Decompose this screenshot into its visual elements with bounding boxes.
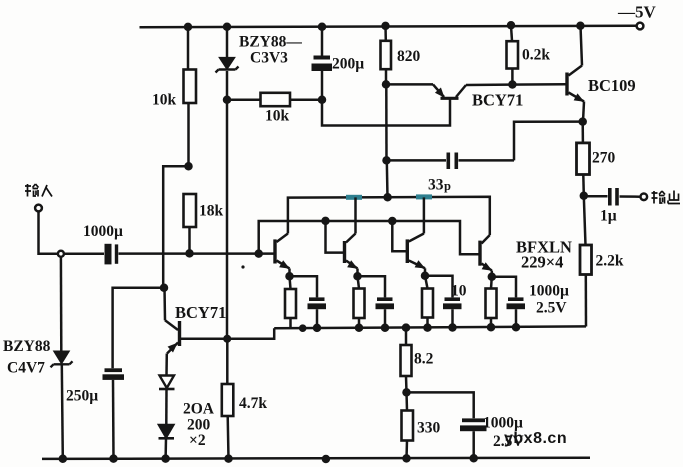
node zener rail junction: [224, 24, 230, 30]
node T1 emitter junction: [287, 273, 293, 279]
resistor 8.2: [401, 328, 412, 393]
node T1 C bus junction: [314, 325, 320, 331]
node zener/10kh junction: [224, 97, 230, 103]
label BCY71 (upper): [472, 91, 523, 110]
svg-text:×2: ×2: [189, 432, 206, 449]
wire zener C3V3 top stem: [226, 27, 229, 58]
node 1000µ ground junction: [471, 455, 477, 461]
node 302 junction on emitter bus: [300, 326, 305, 331]
resistor 4.7k: [222, 384, 234, 416]
node 200µ/10kh junction: [319, 97, 325, 103]
wire C1 to 18k node: [119, 252, 190, 255]
label 2.2k: [596, 253, 624, 270]
svg-text:BZY88: BZY88: [3, 338, 51, 355]
resistor 2.2k: [580, 245, 592, 275]
node ground junction C4V7: [60, 456, 66, 462]
label BCY71 (lower): [175, 303, 226, 322]
svg-text:4.7k: 4.7k: [239, 395, 267, 412]
wire junction to bottom 1000µ: [407, 392, 474, 418]
node BC109 collector rail junction: [577, 23, 583, 29]
node BC109 emitter junction: [580, 119, 586, 125]
svg-text:BZY88—: BZY88—: [239, 34, 302, 51]
wire 33p node down to base bus: [386, 160, 389, 197]
label 1µ: [600, 208, 617, 225]
node 18k/1000µ junction: [187, 250, 193, 256]
diode zener BZY88-C3V3: [216, 58, 239, 73]
node T3 R bus junction: [425, 325, 431, 331]
transistor T2 (BFXLN 2/4): [326, 197, 360, 276]
capacitor 1000µ 2.5V (bottom): [460, 418, 487, 458]
wire 4.7k bottom stem: [226, 416, 229, 459]
node open junction at input/zener: [58, 251, 64, 257]
resistor 10 (T3 emitter): [422, 276, 433, 328]
resistor 18k: [184, 194, 197, 227]
wire 33p to BC109 emitter: [514, 122, 583, 161]
svg-text:2.5V: 2.5V: [536, 300, 567, 317]
wire collector node to 250µ: [113, 288, 164, 369]
label 10k (horizontal resistor): [265, 108, 290, 125]
node 33p left junction: [384, 157, 390, 163]
svg-text:C4V7: C4V7: [7, 360, 45, 377]
label 330: [417, 420, 441, 437]
node T2 emitter junction: [355, 273, 361, 279]
node T3 C bus junction: [450, 325, 456, 331]
svg-text:0.2k: 0.2k: [522, 47, 550, 64]
svg-text:270: 270: [592, 150, 616, 167]
label 输出 (output): [652, 191, 681, 204]
svg-text:250µ: 250µ: [66, 388, 98, 405]
node T4 emitter junction: [489, 274, 495, 280]
capacitor 1000µ (T2 emitter): [358, 276, 395, 328]
wire 2.2k bottom to emitter bus: [585, 275, 588, 327]
node 0.2k rail junction: [508, 22, 514, 28]
capacitor 1000µ (T1 emitter): [290, 276, 327, 328]
svg-text:1µ: 1µ: [600, 208, 617, 225]
svg-text:1000µ: 1000µ: [529, 283, 569, 300]
wire 200µ bottom stem: [321, 71, 324, 100]
node T4 R bus junction: [488, 324, 494, 330]
node T3 base junction on bus2: [389, 218, 395, 224]
svg-text:2.2k: 2.2k: [596, 253, 624, 270]
node T4 C bus junction: [513, 324, 519, 330]
label -5V: [617, 3, 657, 22]
node 10k rail junction: [185, 24, 191, 30]
label 1000µ 2.5V (emitter caps): [529, 283, 569, 317]
wire collector bus (bus1): [288, 197, 490, 235]
svg-text:1000µ: 1000µ: [83, 223, 123, 240]
transistor T3 (BFXLN 3/4): [392, 197, 427, 275]
svg-text:229×4: 229×4: [521, 253, 563, 272]
label BC109: [588, 76, 636, 95]
node T3 collector tap (teal): [416, 194, 432, 199]
diode 2OA200 no.1: [159, 376, 175, 425]
node T2 collector tap (teal): [346, 195, 362, 200]
label 10 (emitter resistors): [451, 283, 467, 300]
resistor 270: [577, 122, 590, 196]
node stray dot on ground rail: [323, 456, 329, 462]
node 0.2k bottom junction: [509, 82, 515, 88]
svg-text:10k: 10k: [265, 108, 290, 125]
capacitor 1µ (output coupling): [584, 188, 640, 206]
svg-text:200: 200: [187, 417, 211, 434]
resistor 10k (vertical, left): [184, 70, 197, 104]
wire 10k top stem: [187, 27, 190, 70]
node 输入 input terminal: [35, 205, 42, 212]
node bus2 bottom junction: [256, 251, 262, 257]
capacitor 200µ: [312, 56, 333, 72]
svg-text:18k: 18k: [199, 203, 224, 220]
resistor 10 (T1 emitter): [285, 276, 296, 328]
resistor 0.2k: [507, 25, 519, 84]
node 4.7k top junction: [224, 336, 230, 342]
label 200µ: [332, 56, 364, 73]
transistor BCY71 no.2: [165, 288, 181, 375]
capacitor 1000µ 2.5V (T4 emitter): [492, 277, 525, 328]
wire junction to C1: [64, 253, 104, 256]
label BZY88 C4V7: [3, 338, 51, 377]
node T3 emitter junction: [422, 273, 428, 279]
svg-text:330: 330: [417, 420, 441, 437]
node ground junction 4.7k: [226, 456, 232, 462]
resistor 820: [381, 26, 392, 85]
transistor BCY71 no.1: [386, 84, 466, 100]
label BZY88-C3V3: [239, 34, 302, 67]
node ground junction 250µ: [111, 456, 117, 462]
resistor 10 (T4 emitter): [486, 277, 497, 328]
node 820 bottom junction: [383, 81, 389, 87]
label 4.7k: [239, 395, 267, 412]
svg-text:200µ: 200µ: [332, 56, 364, 73]
label 820: [397, 48, 421, 65]
node stray speck: [241, 265, 244, 268]
svg-text:820: 820: [397, 48, 421, 65]
node 200µ rail junction: [319, 24, 325, 30]
wire input stem: [39, 212, 58, 254]
resistor 330: [402, 392, 414, 458]
node 820 rail junction: [383, 23, 389, 29]
wire base line to T1: [190, 252, 276, 255]
wire BCY71 no.1 collector to BC109 base: [466, 83, 566, 86]
wire bottom ground rail: [42, 458, 590, 459]
transistor BC109: [567, 26, 586, 122]
terminal -5V (open circle): [637, 23, 644, 30]
svg-text:ybx8.cn: ybx8.cn: [504, 430, 567, 447]
wire 10k bottom to node A: [187, 103, 190, 166]
terminal 输出 output (open circle): [641, 194, 648, 201]
wire zener column down to 4.7k: [226, 71, 229, 384]
wire bracket left of 18k: [163, 166, 188, 288]
label 8.2: [414, 351, 434, 368]
svg-text:C3V3: C3V3: [250, 50, 288, 67]
node A junction: [186, 163, 192, 169]
wire emitter bus: [274, 326, 586, 328]
capacitor 250µ: [103, 368, 125, 458]
label 33p: [428, 177, 451, 194]
wire base bus (bus2): [259, 221, 479, 254]
svg-text:BCY71: BCY71: [472, 91, 523, 110]
label watermark ybx8.cn: [504, 430, 567, 447]
wire 820 node down to 33p node: [385, 84, 388, 160]
label 输入 (input): [25, 184, 52, 197]
label 250µ: [66, 388, 98, 405]
wire 18k bottom stem: [188, 227, 191, 254]
node 330 ground junction: [404, 455, 410, 461]
node 270 bottom junction: [581, 193, 587, 199]
svg-text:—5V: —5V: [617, 3, 657, 22]
transistor T4 (BFXLN 4/4): [480, 235, 494, 277]
capacitor 1000µ (input coupling): [105, 244, 119, 265]
resistor 10k (horizontal): [227, 93, 322, 106]
diode 2OA200 no.2: [159, 425, 175, 459]
capacitor 33p: [387, 153, 515, 170]
node T2 C bus junction: [382, 325, 388, 331]
diode zener BZY88-C4V7: [51, 257, 73, 459]
label 270: [592, 150, 616, 167]
label 18k: [199, 203, 224, 220]
svg-text:BC109: BC109: [588, 76, 636, 95]
node 8.2 bus junction: [403, 325, 409, 331]
transistor T1 (BFXLN 1/4): [275, 234, 292, 277]
svg-text:8.2: 8.2: [414, 351, 434, 368]
resistor 10 (T2 emitter): [354, 276, 365, 328]
node base-drive junction on bus1: [385, 194, 391, 200]
label 1000µ (input cap): [83, 223, 123, 240]
node ground junction diodes: [163, 456, 169, 462]
label 2OA 200 x2: [183, 401, 215, 450]
label 10k (vertical resistor): [152, 92, 177, 109]
svg-text:p: p: [444, 179, 451, 193]
wire 270 node to 2.2k: [584, 196, 586, 245]
node BCY71 no.2 collector junction: [161, 285, 167, 291]
node T2 base junction on bus2: [323, 218, 329, 224]
svg-text:10k: 10k: [152, 92, 177, 109]
svg-text:33: 33: [428, 177, 444, 194]
label 0.2k: [522, 47, 550, 64]
wire top rail (-5V supply rail): [140, 26, 637, 28]
wire jog emitter bus to BCY71 no.2 base: [181, 328, 274, 339]
wire base feed of BCY71 no.1: [322, 99, 450, 126]
node 8.2/330 junction: [404, 389, 410, 395]
node T2 R bus junction: [356, 325, 362, 331]
capacitor 1000µ (T3 emitter): [425, 276, 462, 328]
svg-text:2OA: 2OA: [183, 401, 215, 418]
label 1000µ 2.5V (bottom cap): [483, 415, 524, 451]
wire 200µ top stem: [321, 27, 324, 56]
svg-text:1000µ: 1000µ: [483, 415, 523, 432]
svg-text:BCY71: BCY71: [175, 303, 226, 322]
label BFXLN 229x4: [516, 238, 572, 272]
